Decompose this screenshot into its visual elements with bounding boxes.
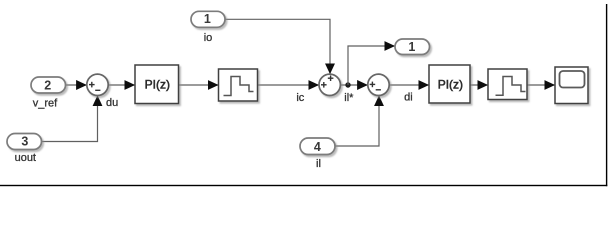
sum S3 minus sign [376,89,381,91]
svg-text:v_ref: v_ref [33,98,58,110]
svg-text:4: 4 [314,140,321,154]
svg-text:1: 1 [408,40,415,54]
table border vertical right [606,4,607,186]
sum S2 plus top [328,75,334,81]
wire sum1 to PI(z) U1 [108,84,134,86]
svg-text:PI(z): PI(z) [438,78,463,92]
wire ZOH1 to sum2, net ic [258,84,319,86]
block ZOH2 [488,69,527,100]
scope block [555,67,588,104]
svg-text:2: 2 [44,79,51,93]
wire junction to out1 [348,46,395,85]
svg-text:1: 1 [204,12,211,26]
sum S1 minus sign [95,89,100,91]
sum block S2 [319,74,340,95]
outport 1 [395,39,430,55]
wire in2 to sum1 [66,84,87,86]
wire in4 il to sum3 bottom [335,96,379,146]
svg-text:il*: il* [344,92,354,104]
wire ZOH2 to scope [527,84,555,86]
block ZOH1 [219,69,258,101]
inport 2 [31,77,66,93]
svg-text:il: il [316,158,321,170]
ZOH1 stair icon [224,77,254,96]
svg-text:uout: uout [15,152,36,164]
wire PI(z) U2 to ZOH2 [470,84,488,86]
sum S2 plus left [321,82,327,88]
table border horizontal bottom [0,185,607,186]
sum S3 plus sign [370,82,376,88]
sum S1 plus sign [89,82,95,88]
svg-text:ic: ic [296,92,304,104]
inport 3 [7,134,42,150]
wire in3 uout to sum1 bottom [42,96,98,142]
block PI(z) U2 [429,65,470,103]
inport 4 [300,138,335,155]
ZOH2 stair icon [496,77,526,96]
inport 1 [191,11,225,27]
block PI(z) U1 [135,65,179,104]
svg-text:3: 3 [21,134,28,148]
svg-text:io: io [204,32,213,44]
sum block S3 [368,74,389,95]
svg-text:PI(z): PI(z) [145,78,170,92]
wire in1 io to sum2 top [225,19,330,73]
junction dot il* [345,82,350,87]
wire sum2 to sum3, net il* [340,84,367,86]
svg-text:di: di [404,92,413,104]
sum block S1 [87,74,108,95]
scope screen [560,71,585,88]
wire PI(z) U1 to ZOH1 [179,84,219,86]
svg-text:du: du [106,97,118,109]
wire sum3 to PI(z) U2, net di [389,84,428,86]
